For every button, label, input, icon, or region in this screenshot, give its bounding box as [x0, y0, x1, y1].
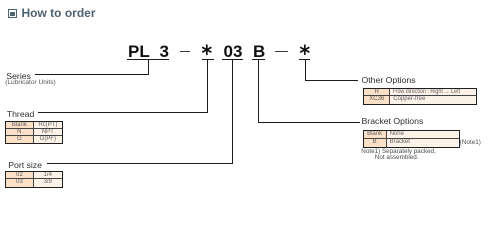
- label Thread: [7, 110, 35, 119]
- title: How to order: [22, 7, 96, 20]
- underline under asterisk 1: [202, 59, 214, 60]
- other options table: [363, 88, 476, 105]
- label Series: [6, 72, 31, 81]
- code 3: [160, 43, 169, 60]
- wire: bracket options horizontal: [258, 122, 360, 123]
- wire: other options horizontal: [305, 80, 358, 81]
- wire: series vertical: [148, 60, 149, 74]
- bracket options table: [363, 130, 460, 148]
- wire: port size horizontal: [47, 163, 233, 164]
- note ref (Note1): [460, 140, 481, 147]
- label Port size: [8, 161, 42, 170]
- title bullet square: [8, 9, 17, 18]
- underline under B: [252, 59, 266, 60]
- underline under PL 3: [127, 59, 169, 60]
- label (Lubricator Units): [5, 80, 56, 87]
- thread table: [5, 121, 63, 144]
- code B: [253, 43, 265, 60]
- label Bracket Options: [362, 117, 424, 126]
- underline under 03: [222, 59, 242, 60]
- code dash 2: [275, 51, 288, 52]
- wire: port size vertical: [232, 60, 233, 164]
- wire: series horizontal: [35, 74, 149, 75]
- underline under asterisk 2: [299, 59, 310, 60]
- wire: thread vertical: [207, 60, 208, 112]
- code asterisk 1: [201, 44, 213, 57]
- port size table: [5, 171, 63, 188]
- code dash 1: [180, 51, 190, 52]
- wire: thread horizontal: [38, 112, 208, 113]
- label Other Options: [362, 76, 416, 85]
- wire: other options vertical: [305, 60, 306, 81]
- code PL: [128, 43, 150, 60]
- note line 1: [361, 149, 436, 156]
- note line 2: [375, 155, 419, 162]
- code asterisk 2: [299, 44, 311, 57]
- code 03: [224, 43, 243, 60]
- wire: bracket options vertical: [258, 60, 259, 123]
